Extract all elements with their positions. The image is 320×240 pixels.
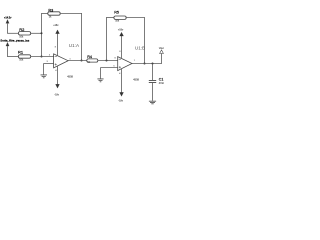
resistor R1 — [18, 55, 30, 58]
power +18v U1:B — [120, 32, 124, 58]
svg-text:47uF: 47uF — [159, 83, 165, 85]
wire (+ input to ground) — [101, 67, 118, 69]
resistor R2 — [18, 32, 30, 35]
svg-text:-18v: -18v — [118, 100, 123, 103]
svg-text:3: 3 — [47, 61, 48, 63]
node (summing junction vertical) — [41, 14, 43, 57]
wire — [126, 17, 145, 19]
wire — [30, 56, 53, 58]
junction (U1:B output / R5 feedback) — [144, 63, 146, 65]
resistor R5 — [114, 16, 126, 19]
ground — [97, 79, 103, 82]
svg-text:R2: R2 — [19, 27, 25, 32]
wire — [7, 56, 19, 58]
capacitor C1 — [149, 64, 156, 101]
junction (U1:A output / R3 feedback) — [81, 60, 83, 62]
svg-text:Sorta_fltre_yassa_las: Sorta_fltre_yassa_las — [0, 39, 29, 43]
svg-text:+14.5v: +14.5v — [4, 16, 12, 19]
wire — [7, 32, 19, 34]
wire (feedback down to output node) — [81, 13, 83, 60]
power -18v U1:A — [56, 66, 60, 88]
svg-text:-18v: -18v — [54, 94, 59, 97]
junction (output / C1) — [152, 63, 154, 65]
resistor R3 — [48, 12, 60, 15]
svg-text:R1: R1 — [18, 50, 24, 55]
ground — [41, 75, 48, 78]
wire (U1:B output) — [132, 63, 162, 65]
svg-text:R3: R3 — [48, 8, 53, 12]
svg-text:U1:A: U1:A — [69, 43, 80, 48]
power +18v U1:A — [56, 30, 60, 56]
svg-text:8: 8 — [55, 47, 56, 49]
svg-text:R5: R5 — [114, 10, 119, 14]
junction (U1:B inverting input / R5 feedback) — [106, 60, 108, 62]
wire — [60, 13, 82, 15]
svg-text:4: 4 — [119, 73, 120, 75]
svg-text:R4: R4 — [87, 55, 92, 59]
text labels — [0, 8, 164, 102]
svg-text:U1:B: U1:B — [135, 46, 145, 51]
power terminal +14.5v — [6, 20, 9, 34]
svg-text:4558: 4558 — [67, 76, 73, 79]
output terminal Vout — [160, 50, 164, 64]
wire — [98, 60, 118, 62]
wire (+ input to ground) — [44, 63, 54, 65]
svg-text:7: 7 — [134, 60, 135, 62]
svg-text:4: 4 — [55, 70, 56, 72]
svg-text:+18v: +18v — [53, 24, 59, 27]
junction (R2 / summing node) — [41, 32, 43, 34]
power -18v U1:B — [120, 69, 124, 96]
wire (feedback up) — [106, 18, 108, 61]
svg-text:6: 6 — [115, 57, 116, 59]
svg-text:1: 1 — [70, 59, 71, 61]
input terminal arrow — [6, 42, 9, 56]
svg-text:8: 8 — [119, 51, 120, 53]
op-amp U1:B — [118, 57, 132, 71]
ground — [149, 101, 156, 104]
svg-text:C1: C1 — [159, 77, 164, 81]
svg-text:4558: 4558 — [133, 79, 139, 82]
junction (R1 / inverting input node) — [41, 56, 43, 58]
wire — [30, 32, 42, 34]
wire (U1:A output) — [68, 60, 87, 62]
wire — [41, 13, 48, 15]
svg-text:2: 2 — [49, 55, 50, 57]
resistor R4 — [87, 59, 98, 62]
svg-text:Vout: Vout — [159, 47, 164, 50]
op-amp U1:A — [54, 54, 69, 68]
svg-text:+18v: +18v — [118, 29, 124, 32]
svg-text:5: 5 — [114, 66, 115, 68]
